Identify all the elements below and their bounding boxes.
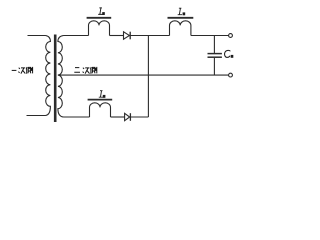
capacitor Cb top lead [213,36,215,54]
choke L1 core bar [87,17,112,19]
choke Lo core bar [168,17,194,19]
wire D1 to choke Lo (node A rail) [130,35,169,37]
wire D2 to node A riser [130,116,148,118]
label 一次側 primary side text [12,67,33,74]
choke L2 winding [90,103,111,117]
transformer T primary winding [46,36,51,116]
wire secondary top to choke L1 [64,35,89,37]
output terminal plus [229,34,233,38]
diode D1 [124,32,131,40]
diode D2 [125,113,131,121]
label 二次側 secondary side text [74,67,97,74]
label L1 [98,8,105,15]
label Cb [225,50,234,57]
wire primary bottom lead [27,115,46,117]
choke Lo winding [170,21,191,36]
label Lo [178,8,186,15]
capacitor Cb bottom lead [213,58,215,75]
wire node A riser vertical [147,36,149,118]
wire primary top lead [28,35,46,37]
choke L2 core bar [88,99,113,101]
wire Lo to output terminal [191,35,229,37]
wire L1 to diode D1 [110,35,124,37]
label L2 [99,91,106,98]
transformer T secondary winding [58,36,64,118]
transformer core [54,35,57,123]
output terminal minus [229,73,233,77]
wire L2 to diode D2 [111,116,125,118]
capacitor Cb plates [208,53,222,55]
wire center tap rail [58,74,229,76]
wire secondary bottom to choke L2 [64,116,90,118]
choke L1 winding [89,21,110,36]
